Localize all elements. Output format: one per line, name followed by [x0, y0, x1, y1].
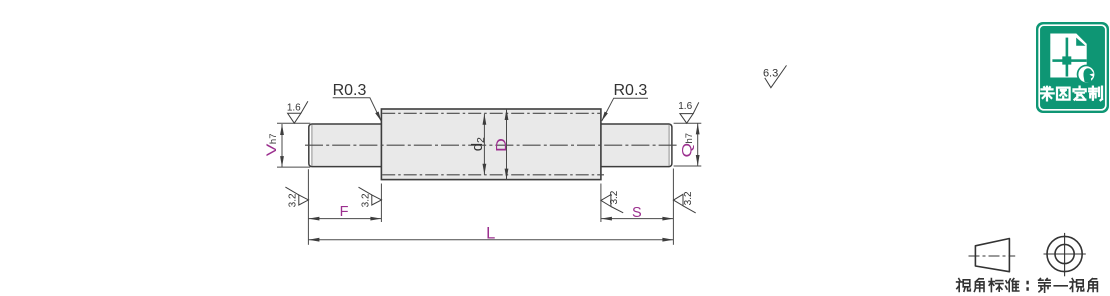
dimension Q line: [697, 123, 699, 166]
fillet label R0.3 left: [333, 82, 382, 121]
roughness 1.6 left: [287, 101, 308, 123]
svg-text:F: F: [340, 204, 349, 220]
svg-text:R0.3: R0.3: [333, 82, 367, 99]
char 视 (2): [1070, 279, 1084, 292]
char 第: [1039, 279, 1051, 293]
badge fold triangle: [1076, 38, 1085, 46]
char 图: [1057, 88, 1070, 100]
dimension Q extension bottom: [674, 165, 702, 167]
svg-text:3.2: 3.2: [609, 190, 620, 204]
circles crosshair horizontal: [1044, 253, 1086, 255]
roughness 3.2 no3 (right shoulder face): [601, 190, 623, 213]
extension line cylinder left (F): [380, 184, 382, 223]
first-angle cone symbol: [975, 239, 1009, 272]
shaft center line: [305, 144, 677, 146]
char 定: [1074, 87, 1086, 100]
char 准: [1006, 279, 1019, 292]
char 标: [989, 279, 1003, 292]
badge circle: [1077, 65, 1096, 84]
center cylinder body: [381, 109, 601, 180]
svg-text:L: L: [486, 225, 495, 243]
dimension V extension top: [277, 122, 310, 124]
char 角 (2): [1088, 279, 1098, 292]
dimension S line: [601, 218, 674, 220]
right journal body: [601, 124, 672, 167]
svg-text:6.3: 6.3: [763, 67, 778, 79]
svg-text:h7: h7: [268, 134, 279, 145]
char 角: [974, 279, 984, 292]
hardened zone line bottom: [382, 174, 604, 176]
dimension L line: [308, 239, 673, 241]
svg-text:V: V: [264, 144, 279, 157]
first-angle circles symbol: [1044, 233, 1086, 276]
svg-text:R0.3: R0.3: [614, 82, 648, 99]
svg-text:3.2: 3.2: [287, 193, 298, 207]
svg-text:Q: Q: [680, 143, 695, 158]
svg-text:S: S: [632, 205, 642, 221]
svg-text:3.2: 3.2: [360, 193, 371, 207]
right journal chamfer line: [668, 125, 670, 166]
svg-text:3.2: 3.2: [683, 191, 694, 205]
char 视: [957, 279, 971, 292]
badge custom-drawing: [1036, 22, 1109, 113]
dimension V line: [281, 124, 283, 167]
badge document sheet: [1050, 34, 1086, 78]
circles crosshair vertical: [1064, 233, 1066, 276]
dimension V extension bottom: [277, 166, 310, 168]
badge cross vertical: [1066, 38, 1069, 77]
fillet label R0.3 right: [602, 82, 648, 121]
colon: [1026, 282, 1028, 290]
dimension d2 line: [483, 114, 485, 175]
left journal body: [309, 124, 382, 167]
roughness 6.3 general: [763, 65, 787, 87]
extension line cylinder right (S): [600, 184, 602, 223]
badge text 来图定制 (stroke drawn): [1040, 87, 1102, 101]
extension line left end (L/F): [307, 169, 309, 245]
roughness 3.2 no4 (right end face): [674, 191, 696, 213]
svg-text:1.6: 1.6: [287, 102, 301, 113]
char 制: [1089, 87, 1102, 101]
extension line right end (L/S): [672, 169, 674, 245]
hardened zone line top: [382, 112, 600, 114]
badge bird glyph: [1083, 68, 1093, 82]
dimension Q extension top: [674, 122, 702, 124]
roughness 3.2 no1 (left end face): [285, 187, 308, 207]
char 来: [1040, 87, 1053, 101]
badge cross horizontal: [1052, 59, 1086, 62]
left journal chamfer line: [311, 125, 313, 166]
svg-text:1.6: 1.6: [678, 101, 692, 112]
dimension D line: [506, 109, 508, 180]
cone center line: [969, 255, 1016, 257]
dimension F line: [308, 218, 381, 220]
roughness 1.6 right: [678, 101, 699, 123]
caption 视角标准：第一视角 (stroke drawn): [957, 279, 1098, 293]
svg-text:D: D: [492, 138, 509, 152]
svg-text:h7: h7: [684, 133, 695, 144]
badge cross square: [1062, 56, 1071, 64]
roughness 3.2 no2 (left shoulder face): [359, 187, 382, 207]
char 一: [1054, 285, 1067, 287]
